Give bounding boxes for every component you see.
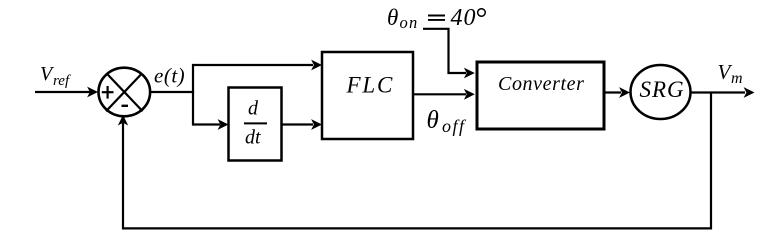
svg-text:40: 40 <box>451 5 477 31</box>
svg-text:θ: θ <box>387 5 398 30</box>
svg-text:FLC: FLC <box>346 73 395 98</box>
svg-text:e(t): e(t) <box>154 64 185 88</box>
svg-text:d: d <box>248 98 259 120</box>
svg-text:off: off <box>442 116 467 136</box>
svg-text:θ: θ <box>427 107 439 134</box>
svg-text:m: m <box>731 70 743 87</box>
svg-text:ref: ref <box>53 73 71 89</box>
svg-text:on: on <box>400 13 419 32</box>
svg-text:Converter: Converter <box>498 73 585 95</box>
svg-text:SRG: SRG <box>640 77 685 102</box>
svg-text:dt: dt <box>245 127 261 149</box>
svg-text:°: ° <box>475 2 487 35</box>
